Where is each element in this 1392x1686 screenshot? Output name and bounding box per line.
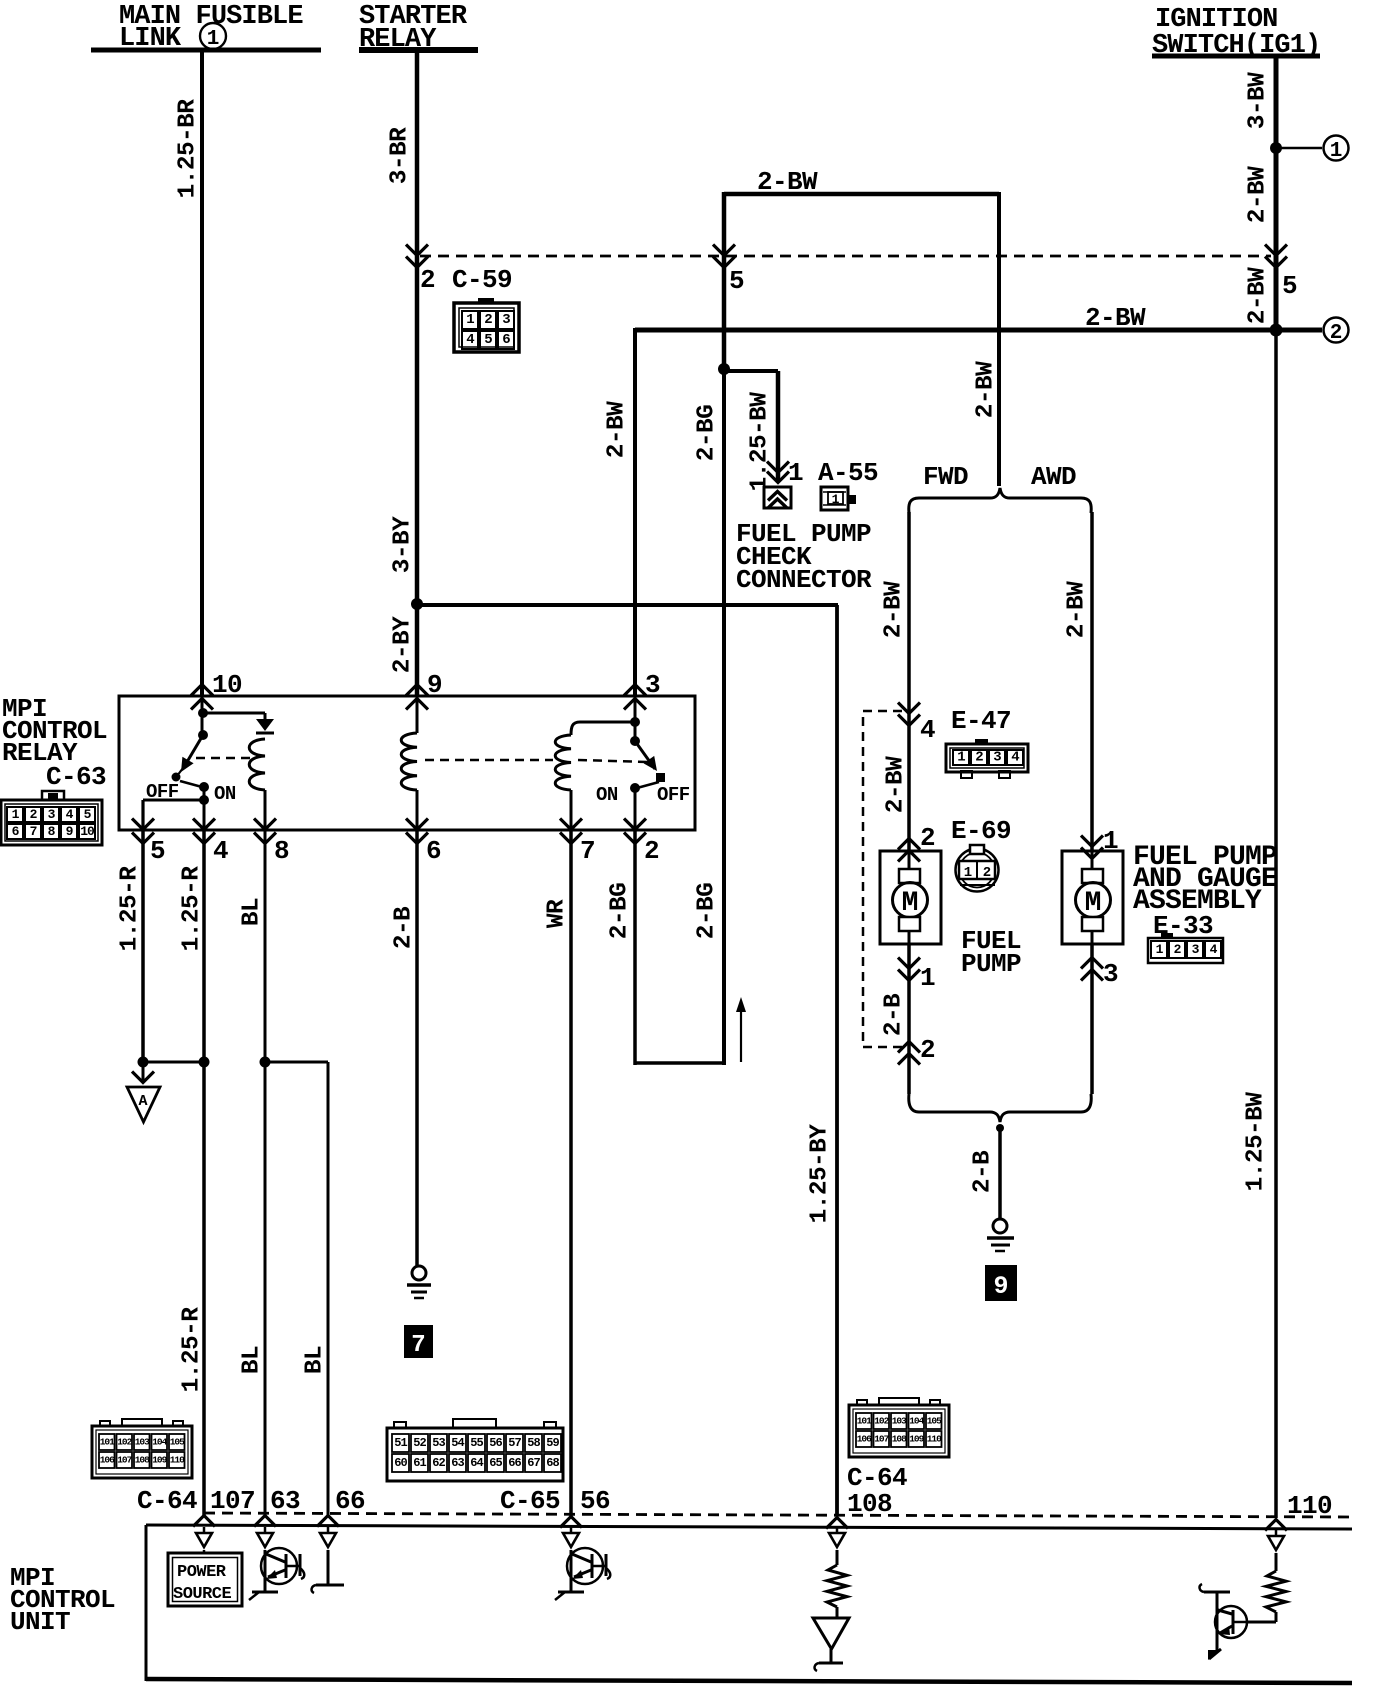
svg-text:6: 6 bbox=[426, 836, 441, 866]
svg-text:8: 8 bbox=[48, 824, 56, 839]
wire 1.25-R pin 5 down bbox=[141, 830, 145, 1062]
svg-text:1.25-R: 1.25-R bbox=[117, 866, 144, 952]
svg-text:66: 66 bbox=[508, 1456, 521, 1470]
connector E-47 pin box bbox=[946, 744, 1028, 772]
ground symbol 9 bbox=[993, 1219, 1007, 1233]
svg-text:5: 5 bbox=[84, 807, 92, 822]
relay 1 switch bbox=[198, 730, 208, 740]
svg-text:OFF: OFF bbox=[657, 784, 690, 806]
connector arrow pin 1 AWD bbox=[1081, 836, 1103, 859]
svg-text:BL: BL bbox=[239, 1346, 266, 1374]
wire AWD pump return bbox=[1090, 944, 1094, 1094]
svg-text:2-B: 2-B bbox=[881, 993, 908, 1036]
transistor Q1 bbox=[249, 1548, 304, 1600]
wire 2-BW AWD branch bbox=[1090, 512, 1094, 852]
relay 2 coil bbox=[416, 696, 419, 733]
svg-text:2: 2 bbox=[420, 265, 435, 295]
transistor driver at pin 63 bbox=[264, 1550, 267, 1552]
svg-text:60: 60 bbox=[394, 1456, 407, 1470]
svg-text:9: 9 bbox=[427, 670, 442, 700]
svg-text:2: 2 bbox=[30, 807, 38, 822]
relay mechanical link dashes bbox=[196, 757, 256, 760]
connector crossing arrow bbox=[560, 1517, 582, 1528]
svg-text:1: 1 bbox=[466, 312, 474, 328]
svg-text:6: 6 bbox=[502, 332, 510, 348]
junction bbox=[411, 598, 423, 610]
svg-text:1: 1 bbox=[12, 807, 20, 822]
svg-text:51: 51 bbox=[394, 1436, 407, 1450]
svg-text:PUMP: PUMP bbox=[961, 949, 1021, 979]
connector crossing arrow bbox=[1265, 1520, 1287, 1531]
svg-text:POWER: POWER bbox=[177, 1563, 227, 1582]
svg-text:7: 7 bbox=[411, 1332, 425, 1359]
bus bar under IGNITION SWITCH bbox=[1152, 54, 1320, 59]
svg-text:2-BW: 2-BW bbox=[1064, 581, 1091, 638]
motor M fuel pump AWD (fuel pump and gauge assembly) bbox=[1062, 851, 1123, 944]
svg-text:2: 2 bbox=[484, 312, 492, 328]
resistor at pin 110 bbox=[1275, 1553, 1278, 1571]
motor M fuel pump FWD bbox=[880, 851, 941, 944]
svg-text:3-BY: 3-BY bbox=[390, 516, 417, 573]
svg-text:4: 4 bbox=[66, 807, 74, 822]
relay pin 8 arrows bbox=[254, 819, 276, 844]
wire 2-B FWD pump return bbox=[907, 944, 911, 1094]
svg-text:105: 105 bbox=[170, 1437, 185, 1448]
brace FWD/AWD bottom bbox=[909, 1094, 1091, 1122]
svg-text:1: 1 bbox=[832, 492, 840, 507]
svg-text:BL: BL bbox=[239, 898, 266, 926]
relay 3 coil bbox=[571, 722, 635, 735]
svg-text:104: 104 bbox=[909, 1416, 924, 1427]
svg-text:1.25-R: 1.25-R bbox=[179, 866, 206, 952]
svg-text:64: 64 bbox=[470, 1456, 483, 1470]
svg-text:106: 106 bbox=[857, 1434, 872, 1445]
relay pin 6 arrows bbox=[406, 819, 428, 844]
connector C-59 pin box bbox=[454, 303, 519, 352]
svg-text:109: 109 bbox=[909, 1434, 924, 1445]
svg-text:1.25-BY: 1.25-BY bbox=[807, 1124, 834, 1224]
svg-text:3: 3 bbox=[502, 312, 510, 328]
svg-text:56: 56 bbox=[489, 1436, 502, 1450]
relay pin 5 arrows bbox=[132, 819, 154, 844]
svg-text:BL: BL bbox=[302, 1346, 329, 1374]
resistor R1 bbox=[827, 1565, 847, 1607]
bus bar under MAIN FUSIBLE LINK bbox=[91, 48, 321, 53]
contact OFF bbox=[172, 773, 181, 782]
relay box MPI CONTROL RELAY C-63 bbox=[119, 696, 695, 830]
MPI input triangle 66 bbox=[327, 1527, 330, 1533]
wire 2-BG down bbox=[722, 369, 726, 1065]
relay 1 coil bbox=[249, 739, 265, 790]
MPI input triangle 110 bbox=[1275, 1530, 1278, 1536]
transistor Q2 bbox=[555, 1548, 610, 1600]
box MPI CONTROL UNIT bbox=[146, 1525, 1352, 1529]
svg-text:5: 5 bbox=[729, 266, 744, 296]
svg-text:110: 110 bbox=[170, 1455, 185, 1466]
svg-text:2: 2 bbox=[920, 823, 935, 853]
svg-text:110: 110 bbox=[927, 1434, 942, 1445]
svg-text:1: 1 bbox=[1330, 140, 1343, 163]
relay pin 2 arrows bbox=[624, 819, 646, 844]
svg-text:101: 101 bbox=[857, 1416, 872, 1427]
svg-text:63: 63 bbox=[270, 1486, 300, 1516]
svg-text:63: 63 bbox=[451, 1456, 464, 1470]
svg-text:2-BG: 2-BG bbox=[694, 405, 721, 461]
svg-text:2: 2 bbox=[983, 865, 991, 881]
wire 2-BW drop to relay pin 3 bbox=[633, 328, 637, 696]
svg-text:C-64: C-64 bbox=[137, 1486, 197, 1516]
svg-text:2-BY: 2-BY bbox=[390, 616, 417, 673]
wire 3-BW/2-BW from ignition switch bbox=[1274, 56, 1279, 330]
svg-text:3: 3 bbox=[993, 750, 1001, 766]
wire 2-BW drop to FWD/AWD brace bbox=[997, 192, 1001, 486]
MPI input triangle 63 bbox=[264, 1527, 267, 1533]
svg-text:E-47: E-47 bbox=[951, 706, 1011, 736]
connector crossing C-59 pin 2 bbox=[406, 245, 428, 268]
connector crossing arrow bbox=[826, 1518, 848, 1529]
svg-text:104: 104 bbox=[152, 1437, 167, 1448]
connector C-63 pin box bbox=[42, 791, 64, 800]
junction pin 8 branch bbox=[260, 1057, 271, 1068]
junction bbox=[718, 363, 730, 375]
transistor driver at pin 110 (mirrored) bbox=[1200, 1584, 1247, 1660]
svg-text:7: 7 bbox=[580, 836, 595, 866]
svg-text:C-63: C-63 bbox=[46, 762, 106, 792]
connector E-33 pin box bbox=[1148, 938, 1223, 963]
transistor driver at pin 56 bbox=[570, 1550, 573, 1552]
svg-text:UNIT: UNIT bbox=[10, 1607, 70, 1637]
dashed connector line C-59 bbox=[420, 255, 1271, 258]
svg-text:10: 10 bbox=[80, 824, 95, 839]
svg-text:2-B: 2-B bbox=[970, 1150, 997, 1193]
svg-text:3: 3 bbox=[1192, 942, 1200, 957]
connector arrow A-55 pin 1 bbox=[767, 462, 789, 483]
svg-text:FWD: FWD bbox=[923, 462, 968, 492]
svg-text:53: 53 bbox=[432, 1436, 445, 1450]
MPI input triangle 56 bbox=[570, 1527, 573, 1533]
wire 3-BR/3-BY/2-BY starter relay to MPI relay pin 9 bbox=[415, 50, 420, 696]
bus bar under STARTER RELAY bbox=[359, 47, 478, 53]
svg-text:102: 102 bbox=[117, 1437, 132, 1448]
svg-text:4: 4 bbox=[466, 332, 474, 348]
svg-text:3: 3 bbox=[48, 807, 56, 822]
wire 2-BW drop to junction bbox=[722, 192, 727, 369]
junction pins 5+4 bbox=[138, 1057, 149, 1068]
relay pin 9 arrows bbox=[406, 685, 428, 710]
wire 2-BY horizontal branch bbox=[417, 603, 838, 607]
svg-text:1.25-BW: 1.25-BW bbox=[747, 392, 774, 492]
resistor R2 bbox=[1266, 1571, 1286, 1612]
svg-text:6: 6 bbox=[12, 824, 20, 839]
wire 1.25-R pin 4 to MPI 107 bbox=[202, 830, 206, 1516]
relay pin 10 arrows bbox=[191, 685, 213, 710]
svg-text:CONNECTOR: CONNECTOR bbox=[736, 565, 872, 595]
svg-text:A: A bbox=[138, 1093, 147, 1110]
relay 1 internal: pilot branch with diode and coil bbox=[201, 696, 204, 737]
svg-text:C-59: C-59 bbox=[452, 265, 512, 295]
svg-text:2-BW: 2-BW bbox=[973, 361, 1000, 418]
connector arrow pin 1 bbox=[898, 958, 920, 981]
relay pin 4 arrows bbox=[193, 819, 215, 844]
svg-text:9: 9 bbox=[993, 1272, 1008, 1301]
svg-text:3-BW: 3-BW bbox=[1245, 72, 1272, 129]
stub terminal at pin 66 bbox=[327, 1550, 330, 1585]
svg-text:M: M bbox=[902, 888, 919, 919]
node circled 2 branch bbox=[1270, 324, 1283, 337]
contact ON bbox=[630, 783, 640, 793]
connector crossing C-59 pin 5 right bbox=[1265, 245, 1287, 268]
svg-text:1.25-R: 1.25-R bbox=[179, 1307, 206, 1393]
connector arrow E-69 pin 2 bbox=[898, 839, 920, 862]
svg-text:107: 107 bbox=[117, 1455, 132, 1466]
svg-text:10: 10 bbox=[212, 670, 242, 700]
wire 2-B to ground bbox=[998, 1128, 1002, 1219]
connector C-64 left pin box bbox=[92, 1426, 192, 1478]
ground symbol 7 bbox=[412, 1266, 426, 1280]
svg-text:AWD: AWD bbox=[1031, 462, 1076, 492]
connector A-55 pin box bbox=[821, 487, 848, 510]
svg-text:5: 5 bbox=[484, 332, 492, 348]
svg-text:108: 108 bbox=[135, 1455, 150, 1466]
wire 2-BW FWD branch bbox=[907, 512, 911, 852]
svg-text:2-BW: 2-BW bbox=[1245, 267, 1272, 324]
svg-text:105: 105 bbox=[927, 1416, 942, 1427]
junction bbox=[996, 1124, 1004, 1132]
svg-text:A-55: A-55 bbox=[818, 458, 878, 488]
svg-text:7: 7 bbox=[30, 824, 37, 839]
svg-text:103: 103 bbox=[135, 1437, 150, 1448]
wire BL pin 8 to MPI 63 bbox=[264, 830, 267, 1516]
svg-text:C-65: C-65 bbox=[500, 1486, 560, 1516]
MPI input triangle 107 bbox=[203, 1527, 206, 1533]
wire 1.25-BR from main fusible link to relay pin 10 bbox=[200, 50, 204, 696]
svg-text:5: 5 bbox=[1282, 271, 1297, 301]
connector crossing arrow bbox=[193, 1516, 215, 1527]
svg-text:SOURCE: SOURCE bbox=[173, 1585, 232, 1604]
wire 2-BW horizontal top bbox=[724, 192, 999, 197]
svg-text:2: 2 bbox=[1174, 942, 1182, 957]
svg-text:62: 62 bbox=[432, 1456, 445, 1470]
svg-text:103: 103 bbox=[892, 1416, 907, 1427]
svg-text:66: 66 bbox=[335, 1486, 365, 1516]
check connector chevron-box symbol bbox=[764, 487, 791, 508]
POWER SOURCE block bbox=[203, 1550, 206, 1553]
connector E-69 round symbol bbox=[956, 849, 999, 892]
wire BL branch to MPI 66 bbox=[327, 1062, 330, 1516]
wire 1.25-BW ignition to MPI pin 110 bbox=[1274, 330, 1278, 1518]
connector arrow pin 3 bbox=[1081, 958, 1103, 981]
svg-text:2-BW: 2-BW bbox=[1245, 166, 1272, 223]
svg-text:57: 57 bbox=[508, 1436, 521, 1450]
svg-text:59: 59 bbox=[546, 1436, 559, 1450]
svg-text:2-BW: 2-BW bbox=[604, 401, 631, 458]
svg-text:2-BG: 2-BG bbox=[694, 883, 721, 939]
connector crossing arrow bbox=[317, 1516, 339, 1527]
svg-text:1: 1 bbox=[920, 963, 935, 993]
svg-text:52: 52 bbox=[413, 1436, 426, 1450]
wire 2-BG loop to check-connector net bbox=[635, 1061, 724, 1065]
svg-text:2: 2 bbox=[975, 750, 983, 766]
wire 2-B pin 6 to ground bbox=[415, 830, 419, 1266]
svg-text:2: 2 bbox=[644, 836, 659, 866]
svg-text:108: 108 bbox=[892, 1434, 907, 1445]
ground triangle A bbox=[142, 1062, 145, 1080]
svg-text:1.25-BR: 1.25-BR bbox=[175, 99, 202, 199]
svg-text:56: 56 bbox=[580, 1486, 610, 1516]
svg-text:8: 8 bbox=[274, 836, 289, 866]
connector crossing arrow bbox=[254, 1516, 276, 1527]
svg-text:WR: WR bbox=[544, 899, 571, 928]
svg-text:1: 1 bbox=[788, 458, 803, 488]
svg-text:ON: ON bbox=[214, 783, 236, 805]
svg-text:3: 3 bbox=[1103, 959, 1118, 989]
connector crossing C-59 pin 5 bbox=[713, 245, 735, 268]
svg-text:107: 107 bbox=[210, 1486, 255, 1516]
svg-text:M: M bbox=[1085, 888, 1102, 919]
connector C-64 right pin box bbox=[849, 1405, 949, 1457]
relay pin 7 arrows bbox=[560, 819, 582, 844]
relay pin 3 arrows bbox=[624, 685, 646, 710]
svg-text:4: 4 bbox=[213, 836, 228, 866]
svg-text:1: 1 bbox=[1156, 942, 1164, 957]
wire 2-BG pin 2 down bbox=[633, 830, 637, 1065]
svg-text:1: 1 bbox=[957, 750, 965, 766]
svg-text:3-BR: 3-BR bbox=[387, 127, 414, 184]
svg-text:68: 68 bbox=[546, 1456, 559, 1470]
connector arrow pin 2 tank exit bbox=[898, 1042, 920, 1065]
svg-text:2-B: 2-B bbox=[391, 906, 418, 949]
brace FWD/AWD top bbox=[909, 488, 1091, 513]
svg-text:106: 106 bbox=[100, 1455, 115, 1466]
svg-text:101: 101 bbox=[100, 1437, 115, 1448]
flow arrow up bbox=[740, 1008, 742, 1062]
svg-text:107: 107 bbox=[874, 1434, 889, 1445]
svg-text:65: 65 bbox=[489, 1456, 502, 1470]
svg-text:4: 4 bbox=[1210, 942, 1218, 957]
svg-text:102: 102 bbox=[874, 1416, 889, 1427]
relay 3 switch bbox=[634, 696, 637, 742]
dashed connector line bottom bbox=[204, 1513, 1353, 1517]
dashed fuel tank boundary bbox=[863, 711, 902, 1047]
wire WR pin 7 to MPI 56 bbox=[569, 830, 573, 1516]
connector C-65 pin box bbox=[387, 1428, 563, 1481]
node circled 1 branch bbox=[1270, 142, 1282, 154]
connector arrow E-47 pin 4 bbox=[898, 703, 920, 726]
MPI input triangle 108 bbox=[836, 1527, 839, 1533]
svg-text:2-BW: 2-BW bbox=[757, 167, 818, 197]
svg-text:1: 1 bbox=[964, 865, 972, 881]
svg-text:2: 2 bbox=[920, 1035, 935, 1065]
svg-text:58: 58 bbox=[527, 1436, 540, 1450]
svg-text:3: 3 bbox=[645, 670, 660, 700]
svg-text:9: 9 bbox=[66, 824, 74, 839]
wire branch to check connector bbox=[724, 369, 778, 373]
svg-text:67: 67 bbox=[527, 1456, 540, 1470]
svg-text:1.25-BW: 1.25-BW bbox=[1243, 1092, 1270, 1192]
svg-text:4: 4 bbox=[920, 715, 935, 745]
svg-text:2-BW: 2-BW bbox=[881, 581, 908, 638]
svg-text:E-69: E-69 bbox=[951, 816, 1011, 846]
svg-text:109: 109 bbox=[152, 1455, 167, 1466]
svg-text:54: 54 bbox=[451, 1436, 464, 1450]
wire 2-BW bus to ignition line bbox=[635, 328, 1276, 333]
svg-text:55: 55 bbox=[470, 1436, 483, 1450]
svg-text:2-BW: 2-BW bbox=[1085, 303, 1146, 333]
svg-text:4: 4 bbox=[1011, 750, 1019, 766]
svg-text:5: 5 bbox=[150, 836, 165, 866]
svg-text:ON: ON bbox=[596, 784, 618, 806]
contact ON bbox=[199, 782, 209, 792]
svg-text:2-BW: 2-BW bbox=[883, 756, 910, 813]
svg-text:61: 61 bbox=[413, 1456, 426, 1470]
wire 1.25-BY to MPI 108 bbox=[835, 605, 839, 1516]
resistor and diode-triangle at pin 108 bbox=[836, 1550, 839, 1565]
svg-text:2-BG: 2-BG bbox=[607, 883, 634, 939]
svg-text:2: 2 bbox=[1330, 322, 1343, 345]
